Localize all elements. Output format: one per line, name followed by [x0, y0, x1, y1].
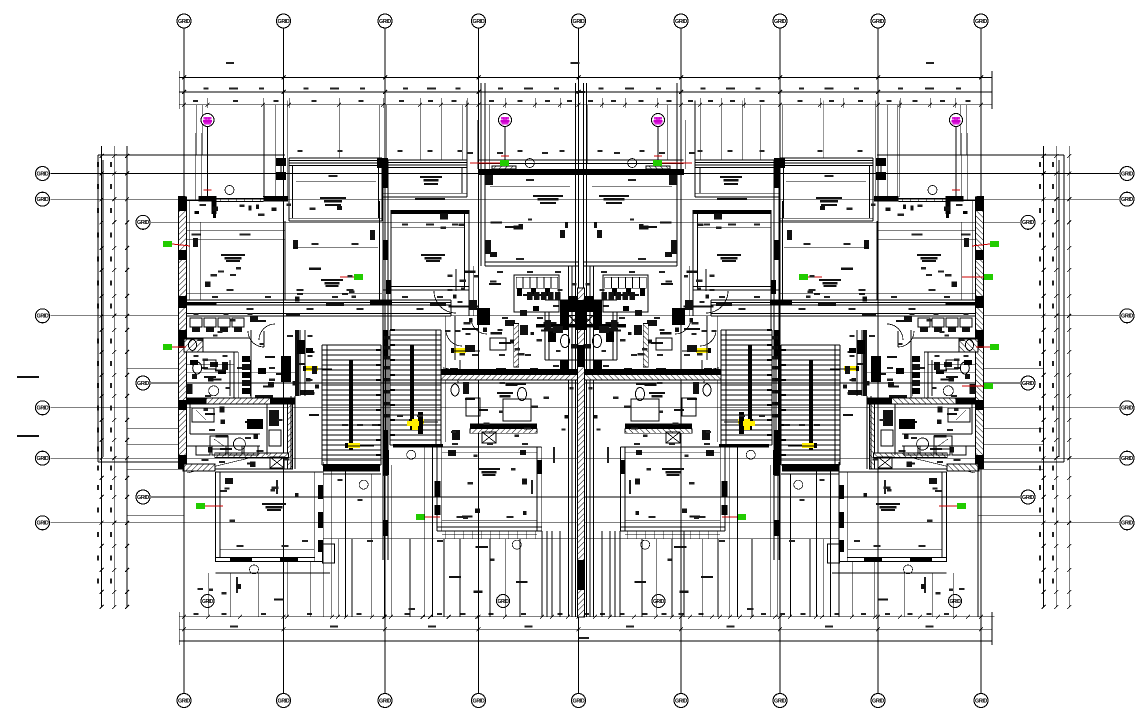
svg-text:GRID: GRID: [1121, 314, 1133, 320]
svg-text:GRID: GRID: [178, 698, 190, 704]
svg-text:GRID: GRID: [1121, 197, 1133, 203]
svg-text:M: M: [954, 118, 959, 124]
svg-text:GRID: GRID: [379, 19, 391, 25]
svg-text:GRID: GRID: [37, 171, 49, 177]
svg-text:GRID: GRID: [975, 698, 987, 704]
svg-text:GRID: GRID: [675, 19, 687, 25]
svg-text:GRID: GRID: [473, 19, 485, 25]
svg-text:M: M: [656, 118, 661, 124]
svg-text:GRID: GRID: [1121, 456, 1133, 462]
svg-text:GRID: GRID: [1022, 220, 1034, 226]
svg-text:GRID: GRID: [653, 599, 665, 605]
svg-text:GRID: GRID: [774, 19, 786, 25]
svg-text:GRID: GRID: [278, 19, 290, 25]
svg-text:M: M: [503, 118, 508, 124]
svg-text:GRID: GRID: [573, 19, 585, 25]
svg-text:GRID: GRID: [975, 19, 987, 25]
svg-text:GRID: GRID: [137, 220, 149, 226]
svg-text:GRID: GRID: [872, 698, 884, 704]
svg-text:GRID: GRID: [37, 197, 49, 203]
svg-text:GRID: GRID: [498, 599, 510, 605]
svg-text:GRID: GRID: [178, 19, 190, 25]
svg-text:GRID: GRID: [675, 698, 687, 704]
svg-text:GRID: GRID: [774, 698, 786, 704]
svg-text:GRID: GRID: [872, 19, 884, 25]
svg-text:GRID: GRID: [37, 521, 49, 527]
svg-text:GRID: GRID: [137, 495, 149, 501]
svg-text:GRID: GRID: [473, 698, 485, 704]
svg-text:GRID: GRID: [379, 698, 391, 704]
svg-text:GRID: GRID: [1121, 406, 1133, 412]
svg-text:GRID: GRID: [1121, 171, 1133, 177]
svg-text:GRID: GRID: [37, 406, 49, 412]
svg-text:GRID: GRID: [573, 698, 585, 704]
svg-text:GRID: GRID: [137, 381, 149, 387]
svg-text:GRID: GRID: [202, 599, 214, 605]
svg-text:GRID: GRID: [1022, 495, 1034, 501]
svg-text:GRID: GRID: [278, 698, 290, 704]
svg-text:M: M: [205, 118, 210, 124]
svg-text:GRID: GRID: [37, 314, 49, 320]
svg-text:GRID: GRID: [37, 456, 49, 462]
svg-text:GRID: GRID: [1121, 521, 1133, 527]
svg-text:GRID: GRID: [950, 599, 962, 605]
svg-text:GRID: GRID: [1022, 381, 1034, 387]
